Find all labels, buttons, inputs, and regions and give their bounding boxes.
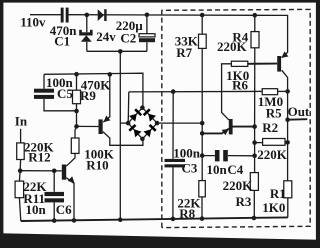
wire mid rail to bridge left vertex [127, 92, 130, 123]
label R9 values [80, 78, 111, 104]
svg-text:10n: 10n [26, 202, 47, 217]
resistor R8 [199, 181, 206, 197]
wire C2 stems [146, 15, 148, 52]
wire C4 link [202, 155, 254, 157]
label R6 values [226, 68, 249, 92]
svg-text:1K0: 1K0 [262, 200, 285, 215]
wire Q3 collector to R6 [222, 64, 232, 120]
wire zener-C2 bottom link [87, 50, 147, 52]
capacitor C4 [215, 150, 228, 161]
svg-text:220K: 220K [217, 39, 248, 54]
label In [15, 114, 28, 129]
wire In stem to R12 [20, 129, 22, 143]
wire C6 stems [53, 171, 55, 221]
svg-text:R2: R2 [262, 120, 278, 135]
svg-text:100n: 100n [173, 146, 201, 161]
svg-text:C6: C6 [56, 202, 72, 217]
transistor Q3 [222, 119, 233, 135]
wire R4 top stem [254, 15, 256, 31]
wire R12 bottom [19, 160, 21, 171]
wire R4 bottom lead [254, 48, 256, 127]
label R1 values [262, 186, 285, 215]
border frame bottom [0, 233, 320, 248]
label R8 values [177, 196, 201, 221]
label R11 values [23, 179, 47, 206]
wire R2 leads [255, 141, 288, 143]
resistor R10 [71, 138, 79, 153]
wire Q3/R8 column [201, 133, 203, 218]
resistor R7 [199, 34, 207, 48]
label R2 values [257, 120, 288, 162]
svg-text:C1: C1 [54, 34, 70, 49]
wire C5/R9/emitter rail [44, 73, 143, 108]
svg-text:R7: R7 [176, 45, 192, 60]
label C1 values [20, 14, 77, 48]
resistor R1 [284, 181, 292, 198]
label C5 values [46, 75, 74, 101]
wire top supply rail C1 to right corner [68, 15, 287, 58]
wire Q2 emitter to bus [66, 178, 74, 221]
svg-text:10n: 10n [207, 162, 228, 177]
wire R9 stems [76, 74, 78, 111]
svg-text:Out: Out [288, 104, 310, 119]
svg-text:R6: R6 [232, 77, 248, 92]
border frame left [0, 0, 3, 248]
svg-text:110v: 110v [20, 14, 46, 29]
label zener 24v [96, 29, 116, 44]
wire zener stem [86, 15, 88, 51]
wire Out stub [288, 118, 308, 121]
resistor R9 [73, 90, 81, 104]
label R3 values [223, 178, 254, 209]
label R7 values [175, 34, 199, 60]
svg-text:220K: 220K [257, 147, 288, 162]
capacitor C1 [61, 8, 69, 23]
transistor Q4 [277, 51, 288, 71]
wire Q3 emitter [202, 129, 229, 134]
svg-text:24v: 24v [96, 29, 116, 44]
label C6 values [26, 202, 73, 217]
capacitor C6 [45, 192, 65, 203]
wire bridge left stub [120, 122, 128, 124]
svg-text:In: In [15, 114, 28, 129]
wire Q4 collector / output column [282, 70, 288, 217]
svg-text:R10: R10 [86, 158, 108, 173]
diode D1 [98, 9, 107, 21]
border frame top [0, 0, 320, 3]
svg-text:R5: R5 [266, 105, 282, 120]
svg-text:R9: R9 [80, 88, 96, 103]
capacitor C2 electrolytic [139, 34, 155, 43]
wire node to R10 [75, 111, 77, 138]
wire bridge right to R7/Q3 node [157, 122, 202, 124]
resistor R2 [263, 139, 285, 146]
wire positive mid rail y92 [129, 90, 262, 93]
capacitor C5 [34, 89, 54, 99]
label R5 values [258, 94, 283, 121]
svg-text:R3: R3 [236, 194, 252, 209]
wire C5 top stem [43, 74, 45, 88]
wire ground bus [21, 217, 288, 221]
dashed isolation box [162, 9, 310, 227]
transistor Q2 [62, 165, 75, 184]
label C2 values [116, 18, 144, 45]
wire C5 bottom to node [44, 99, 77, 111]
wire Q1 base [77, 125, 99, 127]
wire Q1 emitter riser [103, 74, 110, 122]
resistor R12 [17, 143, 25, 160]
wire Q2 base [20, 170, 62, 172]
resistor R5 [262, 89, 277, 95]
wire R7 bottom lead [201, 48, 203, 123]
zener diode 24v [79, 30, 92, 42]
wire R6 to Q4 base [248, 63, 277, 65]
wire R3 column [253, 127, 255, 218]
resistor R4 [251, 32, 259, 48]
wire Q3 base [233, 126, 255, 128]
wire Q3 emitter link [201, 123, 203, 133]
svg-text:R1: R1 [270, 186, 286, 201]
resistor R11 [15, 181, 24, 198]
transistor Q1 [99, 116, 111, 135]
svg-text:R12: R12 [28, 150, 50, 165]
resistor R3 [250, 173, 258, 191]
svg-text:C2: C2 [120, 31, 136, 46]
wire Q2 collector to R10 [66, 154, 75, 167]
label C4 values [207, 162, 244, 177]
wire C3 column [172, 92, 174, 219]
diode bridge [128, 108, 157, 139]
wire Q1 collector to bridge bottom [103, 132, 143, 146]
svg-text:C3: C3 [182, 161, 198, 176]
capacitor C3 [165, 159, 186, 168]
label R12 values [24, 139, 55, 164]
svg-text:C4: C4 [227, 162, 243, 177]
resistor R6 [231, 61, 247, 66]
label C3 values [173, 146, 201, 176]
wire R11 stems [19, 171, 20, 221]
svg-text:R8: R8 [179, 206, 195, 221]
border frame right [316, 0, 320, 248]
label R4 values [217, 29, 249, 54]
wire ground drop from node to bus [119, 51, 121, 220]
label Out [288, 104, 310, 119]
wire R7 top stem [201, 15, 203, 34]
wire R5 right lead [278, 90, 288, 92]
wire top supply rail left of C1 [30, 14, 61, 16]
svg-text:C5: C5 [57, 86, 73, 101]
label R10 values [84, 146, 115, 172]
svg-text:220K: 220K [223, 178, 254, 193]
